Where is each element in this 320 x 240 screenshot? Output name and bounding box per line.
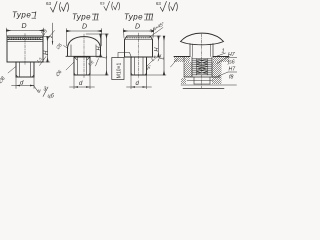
svg-text:63: 63 [46,1,52,6]
svg-text:D: D [82,24,87,31]
svg-text:63: 63 [100,0,105,5]
svg-text:цб: цб [48,94,55,100]
svg-text:H7: H7 [229,67,237,73]
svg-text:1,6: 1,6 [150,54,158,62]
svg-text:L: L [160,56,166,59]
svg-text:D: D [21,23,26,30]
svg-text:d: d [136,81,140,87]
svg-text:H: H [96,47,102,51]
svg-text:M10×1: M10×1 [117,63,123,79]
svg-text:js6: js6 [227,60,235,66]
svg-text:D: D [135,24,140,31]
svg-text:H: H [44,50,50,55]
svg-text:1,6: 1,6 [87,59,95,67]
svg-text:45°: 45° [145,64,153,72]
svg-text:∅5: ∅5 [55,42,63,51]
svg-text:63: 63 [156,1,161,6]
svg-text:3: 3 [44,87,47,93]
svg-text:и: и [38,89,41,95]
svg-text:H: H [154,48,160,52]
svg-text:L: L [102,55,108,58]
svg-text:d: d [79,81,83,87]
svg-text:∅8: ∅8 [0,76,7,86]
svg-text:∅6: ∅6 [54,69,63,78]
svg-text:f8: f8 [229,75,233,81]
svg-text:1,5: 1,5 [35,56,43,64]
